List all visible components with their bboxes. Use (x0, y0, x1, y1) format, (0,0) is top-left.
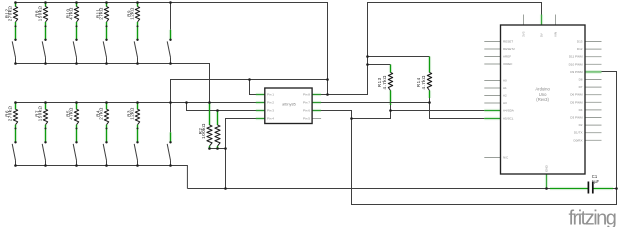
svg-text:150kΩ: 150kΩ (38, 5, 43, 21)
svg-text:D12: D12 (577, 47, 583, 51)
svg-text:IOREF: IOREF (503, 62, 512, 66)
svg-text:A3: A3 (503, 101, 507, 105)
svg-text:D5 PWM: D5 PWM (570, 100, 583, 104)
svg-text:D3 PWM: D3 PWM (570, 116, 583, 120)
svg-text:AREF: AREF (503, 55, 511, 59)
svg-text:(Rev3): (Rev3) (536, 97, 549, 102)
svg-text:D13: D13 (577, 40, 583, 44)
svg-text:4.7kΩ: 4.7kΩ (382, 75, 387, 90)
svg-text:N/C: N/C (503, 156, 509, 160)
svg-text:D8: D8 (579, 78, 583, 82)
svg-text:270kΩ: 270kΩ (8, 5, 13, 21)
svg-text:Pin 5: Pin 5 (303, 117, 310, 121)
svg-text:A2: A2 (503, 94, 507, 98)
svg-text:VIN: VIN (554, 32, 558, 37)
svg-text:D10 PWM: D10 PWM (569, 62, 583, 66)
svg-text:Pin 7: Pin 7 (303, 101, 310, 105)
svg-text:270kΩ: 270kΩ (8, 105, 13, 121)
svg-text:D7: D7 (579, 85, 583, 89)
svg-text:4.7kΩ: 4.7kΩ (421, 75, 426, 90)
svg-text:A4/SDA: A4/SDA (503, 109, 515, 113)
svg-text:27kΩ: 27kΩ (99, 107, 104, 120)
svg-text:D6 PWM: D6 PWM (570, 93, 583, 97)
svg-text:A0: A0 (503, 79, 507, 83)
svg-text:12kΩ: 12kΩ (130, 107, 135, 120)
svg-text:fritzing: fritzing (569, 208, 616, 228)
svg-text:1µF: 1µF (592, 179, 600, 184)
svg-text:47kΩ: 47kΩ (69, 7, 74, 20)
svg-text:47kΩ: 47kΩ (69, 107, 74, 120)
svg-text:Pin 6: Pin 6 (303, 109, 310, 113)
svg-text:RESET: RESET (503, 40, 513, 44)
svg-text:RESET2: RESET2 (503, 47, 515, 51)
svg-text:150kΩ: 150kΩ (38, 105, 43, 121)
svg-text:D9 PWM: D9 PWM (570, 70, 583, 74)
svg-text:D1/TX: D1/TX (574, 131, 583, 135)
svg-text:A5/SCL: A5/SCL (503, 117, 514, 121)
svg-text:GND: GND (545, 164, 549, 172)
svg-text:Uno: Uno (539, 92, 547, 97)
svg-text:Arduino: Arduino (535, 87, 550, 92)
svg-text:Pin 8: Pin 8 (303, 93, 310, 97)
svg-text:100kΩ: 100kΩ (201, 123, 206, 139)
svg-text:Pin 4: Pin 4 (267, 117, 274, 121)
svg-text:D0/RX: D0/RX (574, 138, 583, 142)
svg-text:A1: A1 (503, 86, 507, 90)
svg-text:3V3: 3V3 (522, 31, 526, 37)
svg-text:Pin 1: Pin 1 (267, 93, 274, 97)
svg-text:attiny85: attiny85 (282, 101, 296, 106)
svg-text:D4: D4 (579, 108, 583, 112)
svg-text:Pin 2: Pin 2 (267, 101, 274, 105)
svg-text:D11 PWM: D11 PWM (569, 55, 583, 59)
svg-text:12kΩ: 12kΩ (130, 7, 135, 20)
svg-text:Pin 3: Pin 3 (267, 109, 274, 113)
svg-text:D2: D2 (579, 123, 583, 127)
svg-text:27kΩ: 27kΩ (99, 7, 104, 20)
